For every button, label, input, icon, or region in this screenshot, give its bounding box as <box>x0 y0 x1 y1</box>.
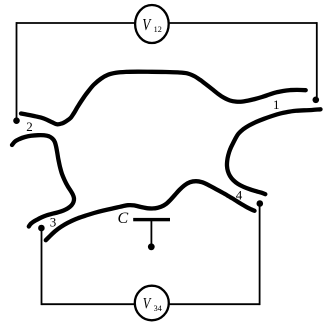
svg-text:1: 1 <box>273 97 280 112</box>
wire bottom-left vertical from contact 3 <box>41 231 43 306</box>
contact dot 4 <box>257 200 264 207</box>
svg-text:3: 3 <box>50 215 57 230</box>
svg-text:4: 4 <box>236 188 243 203</box>
svg-text:12: 12 <box>154 25 162 34</box>
wire right vertical to contact 1 <box>316 22 318 97</box>
voltmeter V12 circle <box>135 5 169 43</box>
capacitor C top plate <box>133 218 170 221</box>
contact dot 3 <box>38 225 45 232</box>
contact dot 2 <box>13 117 20 124</box>
capacitor terminal dot <box>148 243 155 250</box>
voltmeter V34 circle <box>135 286 169 321</box>
sample edge arc top (contact 2 to contact 1) <box>21 72 306 125</box>
sample edge arc left (contact 2 to contact 3) <box>12 135 74 226</box>
svg-text:2: 2 <box>26 119 33 134</box>
wire top from contact 2 to contact 1 via V12 <box>17 22 317 24</box>
svg-text:C: C <box>118 210 129 227</box>
wire bottom-right vertical from contact 4 <box>259 207 261 306</box>
capacitor lead wire <box>150 221 152 244</box>
contact dot 1 <box>313 97 320 104</box>
wire bottom from contact 3 to contact 4 via V34 <box>42 303 260 305</box>
svg-text:34: 34 <box>154 304 162 313</box>
sample edge arc bottom (contact 3 to contact 4) <box>46 181 255 240</box>
sample edge arc right (contact 1 to contact 4) <box>227 109 321 194</box>
wire left vertical to contact 2 <box>16 22 18 118</box>
